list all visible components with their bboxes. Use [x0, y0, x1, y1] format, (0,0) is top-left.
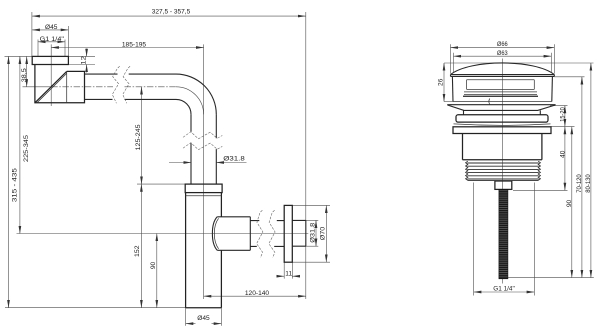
svg-text:38,5: 38,5 — [21, 68, 28, 82]
svg-text:Ø45: Ø45 — [197, 315, 210, 322]
svg-text:15-20: 15-20 — [559, 107, 566, 122]
svg-text:12: 12 — [80, 56, 87, 65]
svg-text:152: 152 — [134, 245, 141, 257]
svg-text:185-195: 185-195 — [122, 41, 147, 48]
svg-text:327,5 - 357,5: 327,5 - 357,5 — [152, 9, 191, 16]
svg-text:11: 11 — [285, 270, 292, 277]
svg-text:26: 26 — [437, 78, 444, 86]
svg-text:Ø45: Ø45 — [45, 24, 58, 31]
svg-text:Ø70: Ø70 — [320, 226, 327, 240]
svg-text:G1 1/4": G1 1/4" — [40, 36, 65, 43]
svg-text:G1 1/4": G1 1/4" — [493, 286, 515, 293]
svg-text:70-120: 70-120 — [576, 174, 583, 193]
svg-text:40: 40 — [559, 150, 566, 158]
svg-text:Ø31.8: Ø31.8 — [223, 155, 245, 162]
svg-text:315 - 435: 315 - 435 — [11, 168, 18, 202]
svg-text:Ø66: Ø66 — [497, 41, 508, 48]
svg-text:Ø63: Ø63 — [497, 50, 508, 57]
svg-text:90: 90 — [150, 262, 157, 270]
svg-text:Ø31.8: Ø31.8 — [310, 222, 317, 242]
svg-text:120-140: 120-140 — [245, 290, 270, 297]
svg-text:90: 90 — [566, 200, 573, 208]
svg-text:125-245: 125-245 — [135, 124, 142, 150]
svg-text:225-345: 225-345 — [23, 135, 30, 162]
svg-text:80-130: 80-130 — [585, 174, 592, 193]
